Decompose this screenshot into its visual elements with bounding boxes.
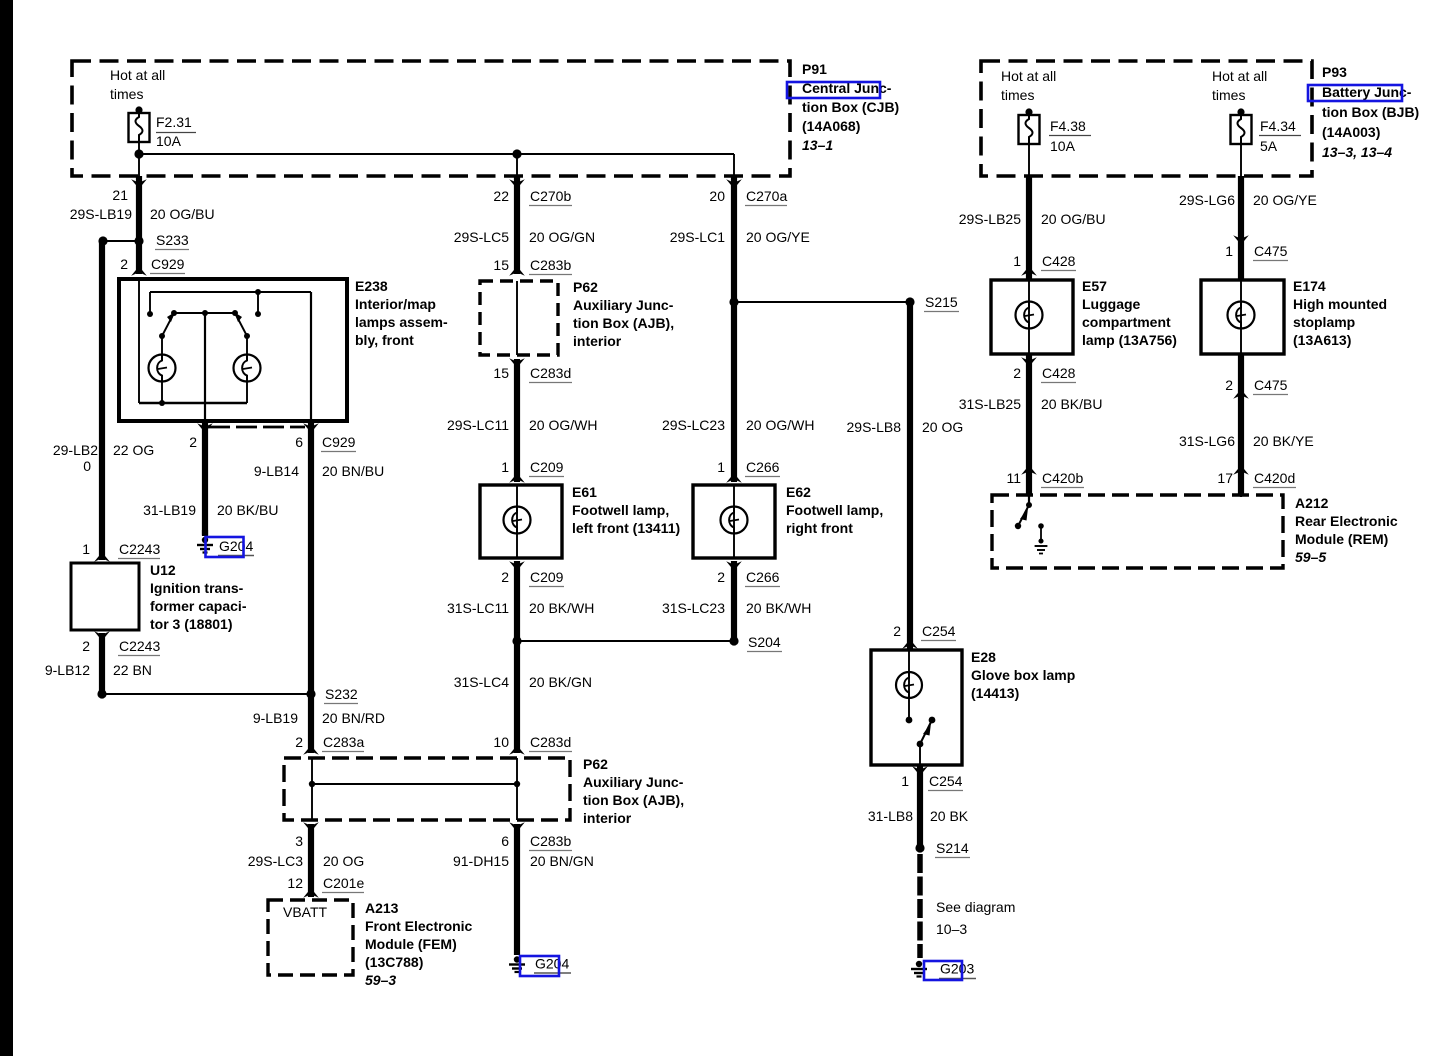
svg-text:1: 1 [501,459,509,475]
svg-text:15: 15 [493,365,509,381]
svg-text:S204: S204 [748,634,781,650]
svg-text:31S-LC11: 31S-LC11 [447,600,509,616]
svg-text:22: 22 [493,188,509,204]
svg-text:1: 1 [717,459,725,475]
svg-text:F4.38: F4.38 [1050,118,1086,134]
svg-text:20 BK/YE: 20 BK/YE [1253,433,1314,449]
svg-text:interior: interior [573,333,622,349]
svg-text:C270a: C270a [746,188,787,204]
svg-text:Front Electronic: Front Electronic [365,918,473,934]
svg-text:C209: C209 [530,569,564,585]
svg-text:29S-LC11: 29S-LC11 [447,417,509,433]
svg-text:20 OG: 20 OG [922,419,963,435]
svg-text:31-LB8: 31-LB8 [868,808,913,824]
svg-text:22 BN: 22 BN [113,662,152,678]
svg-text:Hot at all: Hot at all [1001,68,1056,84]
svg-text:Glove box lamp: Glove box lamp [971,667,1075,683]
svg-text:1: 1 [82,541,90,557]
svg-text:2: 2 [295,734,303,750]
svg-text:20 OG/YE: 20 OG/YE [746,229,810,245]
svg-text:31-LB19: 31-LB19 [143,502,196,518]
svg-text:E61: E61 [572,484,597,500]
svg-text:91-DH15: 91-DH15 [453,853,509,869]
svg-text:6: 6 [295,434,303,450]
svg-text:interior: interior [583,810,632,826]
svg-text:Battery Junc-: Battery Junc- [1322,84,1412,100]
svg-text:10A: 10A [1050,138,1076,154]
svg-text:9-LB14: 9-LB14 [254,463,299,479]
svg-text:lamp (13A756): lamp (13A756) [1082,332,1177,348]
svg-text:Footwell lamp,: Footwell lamp, [786,502,883,518]
svg-text:G203: G203 [940,961,974,977]
svg-text:20 OG/YE: 20 OG/YE [1253,192,1317,208]
svg-text:C420b: C420b [1042,470,1083,486]
svg-text:Luggage: Luggage [1082,296,1141,312]
svg-text:C254: C254 [929,773,963,789]
svg-text:E62: E62 [786,484,811,500]
svg-text:F4.34: F4.34 [1260,118,1296,134]
svg-text:tion Box (CJB): tion Box (CJB) [802,99,899,115]
svg-text:29-LB2: 29-LB2 [53,442,98,458]
svg-text:C254: C254 [922,623,956,639]
svg-text:U12: U12 [150,562,176,578]
svg-text:Auxiliary Junc-: Auxiliary Junc- [573,297,674,313]
svg-text:11: 11 [1006,470,1021,486]
svg-text:compartment: compartment [1082,314,1171,330]
svg-text:2: 2 [893,623,901,639]
svg-text:20 BK/GN: 20 BK/GN [529,674,592,690]
svg-text:C283d: C283d [530,365,571,381]
svg-text:C428: C428 [1042,253,1076,269]
svg-text:C475: C475 [1254,377,1288,393]
svg-text:Ignition trans-: Ignition trans- [150,580,244,596]
svg-text:9-LB12: 9-LB12 [45,662,90,678]
svg-text:59–5: 59–5 [1295,549,1326,565]
svg-text:(14A068): (14A068) [802,118,860,134]
svg-text:former capaci-: former capaci- [150,598,247,614]
svg-text:C201e: C201e [323,875,364,891]
svg-text:5A: 5A [1260,138,1278,154]
svg-text:See diagram: See diagram [936,899,1015,915]
svg-text:29S-LC5: 29S-LC5 [454,229,509,245]
svg-text:12: 12 [287,875,303,891]
svg-text:Hot at all: Hot at all [110,67,165,83]
svg-text:10: 10 [493,734,509,750]
svg-text:3: 3 [295,833,303,849]
svg-text:31S-LB25: 31S-LB25 [959,396,1021,412]
svg-text:bly, front: bly, front [355,332,414,348]
svg-text:C266: C266 [746,569,780,585]
svg-text:29S-LB19: 29S-LB19 [70,206,132,222]
svg-text:C266: C266 [746,459,780,475]
svg-text:13–3, 13–4: 13–3, 13–4 [1322,144,1392,160]
svg-text:E57: E57 [1082,278,1107,294]
svg-text:6: 6 [501,833,509,849]
svg-text:20: 20 [709,188,725,204]
svg-text:1: 1 [1225,243,1233,259]
svg-text:C2243: C2243 [119,638,160,654]
svg-text:Footwell lamp,: Footwell lamp, [572,502,669,518]
svg-text:S214: S214 [936,840,969,856]
svg-text:E238: E238 [355,278,388,294]
svg-text:31S-LC23: 31S-LC23 [662,600,725,616]
svg-text:G204: G204 [219,538,253,554]
svg-text:10–3: 10–3 [936,921,967,937]
svg-text:29S-LC1: 29S-LC1 [670,229,725,245]
svg-text:20 OG/BU: 20 OG/BU [150,206,215,222]
svg-text:tion Box (AJB),: tion Box (AJB), [583,792,684,808]
svg-text:2: 2 [1225,377,1233,393]
svg-text:F2.31: F2.31 [156,114,192,130]
svg-text:lamps assem-: lamps assem- [355,314,448,330]
svg-text:2: 2 [189,434,197,450]
svg-text:1: 1 [901,773,909,789]
svg-text:20 OG/WH: 20 OG/WH [746,417,814,433]
svg-text:29S-LB8: 29S-LB8 [847,419,902,435]
svg-text:59–3: 59–3 [365,972,396,988]
svg-text:20 BK/WH: 20 BK/WH [746,600,811,616]
svg-text:C283d: C283d [530,734,571,750]
svg-text:A213: A213 [365,900,399,916]
svg-text:High mounted: High mounted [1293,296,1387,312]
svg-text:29S-LG6: 29S-LG6 [1179,192,1235,208]
svg-text:20 BN/GN: 20 BN/GN [530,853,594,869]
svg-text:1: 1 [1013,253,1021,269]
svg-text:2: 2 [501,569,509,585]
svg-text:20 BK/BU: 20 BK/BU [1041,396,1102,412]
svg-text:20 BK/BU: 20 BK/BU [217,502,278,518]
svg-text:G204: G204 [535,956,569,972]
svg-text:left front (13411): left front (13411) [572,520,680,536]
svg-text:C209: C209 [530,459,564,475]
svg-text:10A: 10A [156,133,182,149]
svg-text:P91: P91 [802,61,827,77]
svg-text:17: 17 [1217,470,1233,486]
svg-text:Module (REM): Module (REM) [1295,531,1388,547]
svg-text:C283b: C283b [530,257,571,273]
svg-text:C283a: C283a [323,734,364,750]
svg-text:2: 2 [120,256,128,272]
svg-text:20 BN/RD: 20 BN/RD [322,710,385,726]
svg-text:(14A003): (14A003) [1322,124,1380,140]
svg-text:S232: S232 [325,686,358,702]
svg-text:20 OG/BU: 20 OG/BU [1041,211,1106,227]
svg-text:C428: C428 [1042,365,1076,381]
svg-text:C270b: C270b [530,188,571,204]
svg-text:C929: C929 [151,256,185,272]
svg-text:C475: C475 [1254,243,1288,259]
svg-text:tor 3 (18801): tor 3 (18801) [150,616,232,632]
svg-text:21: 21 [112,187,128,203]
svg-text:C2243: C2243 [119,541,160,557]
svg-text:Interior/map: Interior/map [355,296,436,312]
svg-text:29S-LC23: 29S-LC23 [662,417,725,433]
svg-text:(14413): (14413) [971,685,1019,701]
svg-text:Module (FEM): Module (FEM) [365,936,457,952]
svg-text:C929: C929 [322,434,356,450]
svg-text:22 OG: 22 OG [113,442,154,458]
svg-text:C283b: C283b [530,833,571,849]
svg-text:29S-LC3: 29S-LC3 [248,853,303,869]
svg-text:9-LB19: 9-LB19 [253,710,298,726]
svg-text:20 OG/GN: 20 OG/GN [529,229,595,245]
svg-text:P62: P62 [583,756,608,772]
svg-text:stoplamp: stoplamp [1293,314,1355,330]
svg-text:20 OG/WH: 20 OG/WH [529,417,597,433]
svg-text:20 BK: 20 BK [930,808,969,824]
svg-text:2: 2 [717,569,725,585]
svg-text:20 OG: 20 OG [323,853,364,869]
svg-text:times: times [110,86,143,102]
svg-text:(13A613): (13A613) [1293,332,1351,348]
svg-text:Hot at all: Hot at all [1212,68,1267,84]
svg-text:A212: A212 [1295,495,1329,511]
svg-text:20 BK/WH: 20 BK/WH [529,600,594,616]
svg-text:31S-LC4: 31S-LC4 [454,674,509,690]
svg-text:Rear Electronic: Rear Electronic [1295,513,1398,529]
svg-text:P93: P93 [1322,64,1347,80]
svg-text:0: 0 [83,458,91,474]
svg-text:S233: S233 [156,232,189,248]
svg-text:right front: right front [786,520,853,536]
svg-text:P62: P62 [573,279,598,295]
svg-text:times: times [1212,87,1245,103]
svg-text:31S-LG6: 31S-LG6 [1179,433,1235,449]
svg-text:29S-LB25: 29S-LB25 [959,211,1021,227]
svg-text:tion Box (BJB): tion Box (BJB) [1322,104,1419,120]
svg-text:Auxiliary Junc-: Auxiliary Junc- [583,774,684,790]
svg-text:15: 15 [493,257,509,273]
svg-text:20 BN/BU: 20 BN/BU [322,463,384,479]
svg-text:2: 2 [1013,365,1021,381]
svg-text:times: times [1001,87,1034,103]
svg-text:S215: S215 [925,294,958,310]
svg-text:E28: E28 [971,649,996,665]
svg-text:13–1: 13–1 [802,137,833,153]
svg-text:VBATT: VBATT [283,904,328,920]
svg-text:2: 2 [82,638,90,654]
svg-text:tion Box (AJB),: tion Box (AJB), [573,315,674,331]
svg-text:(13C788): (13C788) [365,954,423,970]
svg-text:C420d: C420d [1254,470,1295,486]
svg-text:E174: E174 [1293,278,1326,294]
